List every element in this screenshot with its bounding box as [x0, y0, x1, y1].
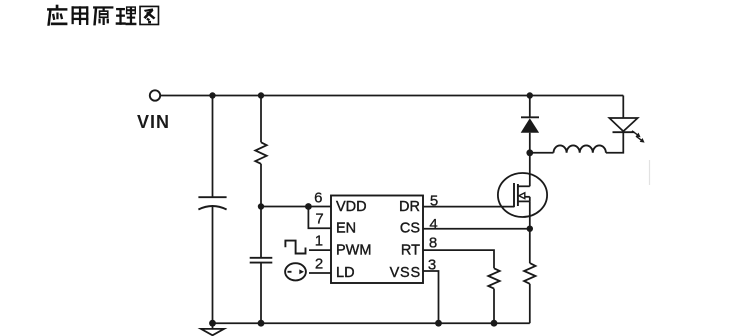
resistor R2 RT — [488, 268, 499, 288]
node pin6 junction — [305, 203, 312, 210]
PWM pulse symbol — [285, 241, 305, 254]
wire RT to ground rail — [493, 289, 495, 324]
wire mid branch upper — [260, 96, 262, 143]
op-amp U1 IC body — [331, 196, 423, 284]
terminal VIN — [150, 90, 160, 100]
node top-mid junction — [258, 92, 264, 98]
wire left branch upper — [212, 96, 214, 198]
svg-text:4: 4 — [429, 216, 437, 233]
LD source symbol — [285, 263, 306, 280]
wire pin1 stub — [309, 249, 331, 251]
wire switch to inductor — [530, 152, 554, 154]
svg-text:8: 8 — [429, 235, 437, 252]
resistor R1 — [255, 142, 266, 164]
svg-text:RT: RT — [401, 243, 420, 259]
wire CS sense — [423, 228, 530, 230]
diode D1 — [521, 96, 539, 153]
node top-right junction — [527, 92, 533, 98]
capacitor C1 — [198, 197, 226, 209]
wire pin2 stub — [309, 272, 331, 274]
node VDD branch junction — [258, 203, 264, 209]
svg-text:CS: CS — [400, 221, 420, 237]
svg-text:1: 1 — [315, 233, 323, 250]
wire EN feed — [308, 207, 331, 229]
LED D2 — [609, 96, 644, 143]
svg-text:EN: EN — [336, 221, 356, 237]
transistor Q1 MOSFET — [498, 173, 547, 217]
svg-text:PWM: PWM — [336, 243, 371, 259]
svg-text:VDD: VDD — [336, 199, 367, 215]
wire DR to gate — [423, 206, 514, 208]
wire mid branch lower — [260, 263, 262, 324]
wire RT run — [423, 250, 494, 268]
wire drain up — [529, 153, 531, 187]
resistor R3 sense — [524, 263, 535, 284]
node bottom-left junction — [209, 320, 216, 327]
wire sense to rail — [529, 284, 531, 323]
svg-text:2: 2 — [315, 255, 323, 272]
svg-text:6: 6 — [314, 190, 322, 207]
node bottom-mid junction — [258, 320, 265, 327]
title 应用原理图 — [47, 5, 158, 26]
faint scan artifact — [649, 160, 651, 185]
wire VSS run — [423, 271, 439, 323]
node top-left junction — [209, 92, 215, 98]
ground — [201, 323, 224, 335]
node bottom RT junction — [491, 320, 498, 327]
node switch junction — [526, 149, 533, 156]
inductor L1 — [554, 145, 606, 152]
wire left branch lower — [212, 207, 214, 323]
svg-text:VIN: VIN — [137, 112, 170, 132]
wire bottom rail — [213, 322, 530, 324]
wire source down — [529, 201, 531, 263]
wire inductor to LED — [606, 133, 623, 153]
svg-text:7: 7 — [315, 211, 323, 228]
wire VDD feed — [261, 206, 331, 208]
svg-text:VSS: VSS — [390, 265, 421, 281]
capacitor C2 — [250, 258, 273, 263]
node CS junction — [527, 226, 533, 232]
svg-text:DR: DR — [399, 199, 420, 215]
node bottom VSS junction — [435, 320, 442, 327]
svg-text:LD: LD — [336, 265, 355, 281]
wire mid branch middle — [260, 164, 262, 258]
wire top rail — [160, 95, 623, 97]
